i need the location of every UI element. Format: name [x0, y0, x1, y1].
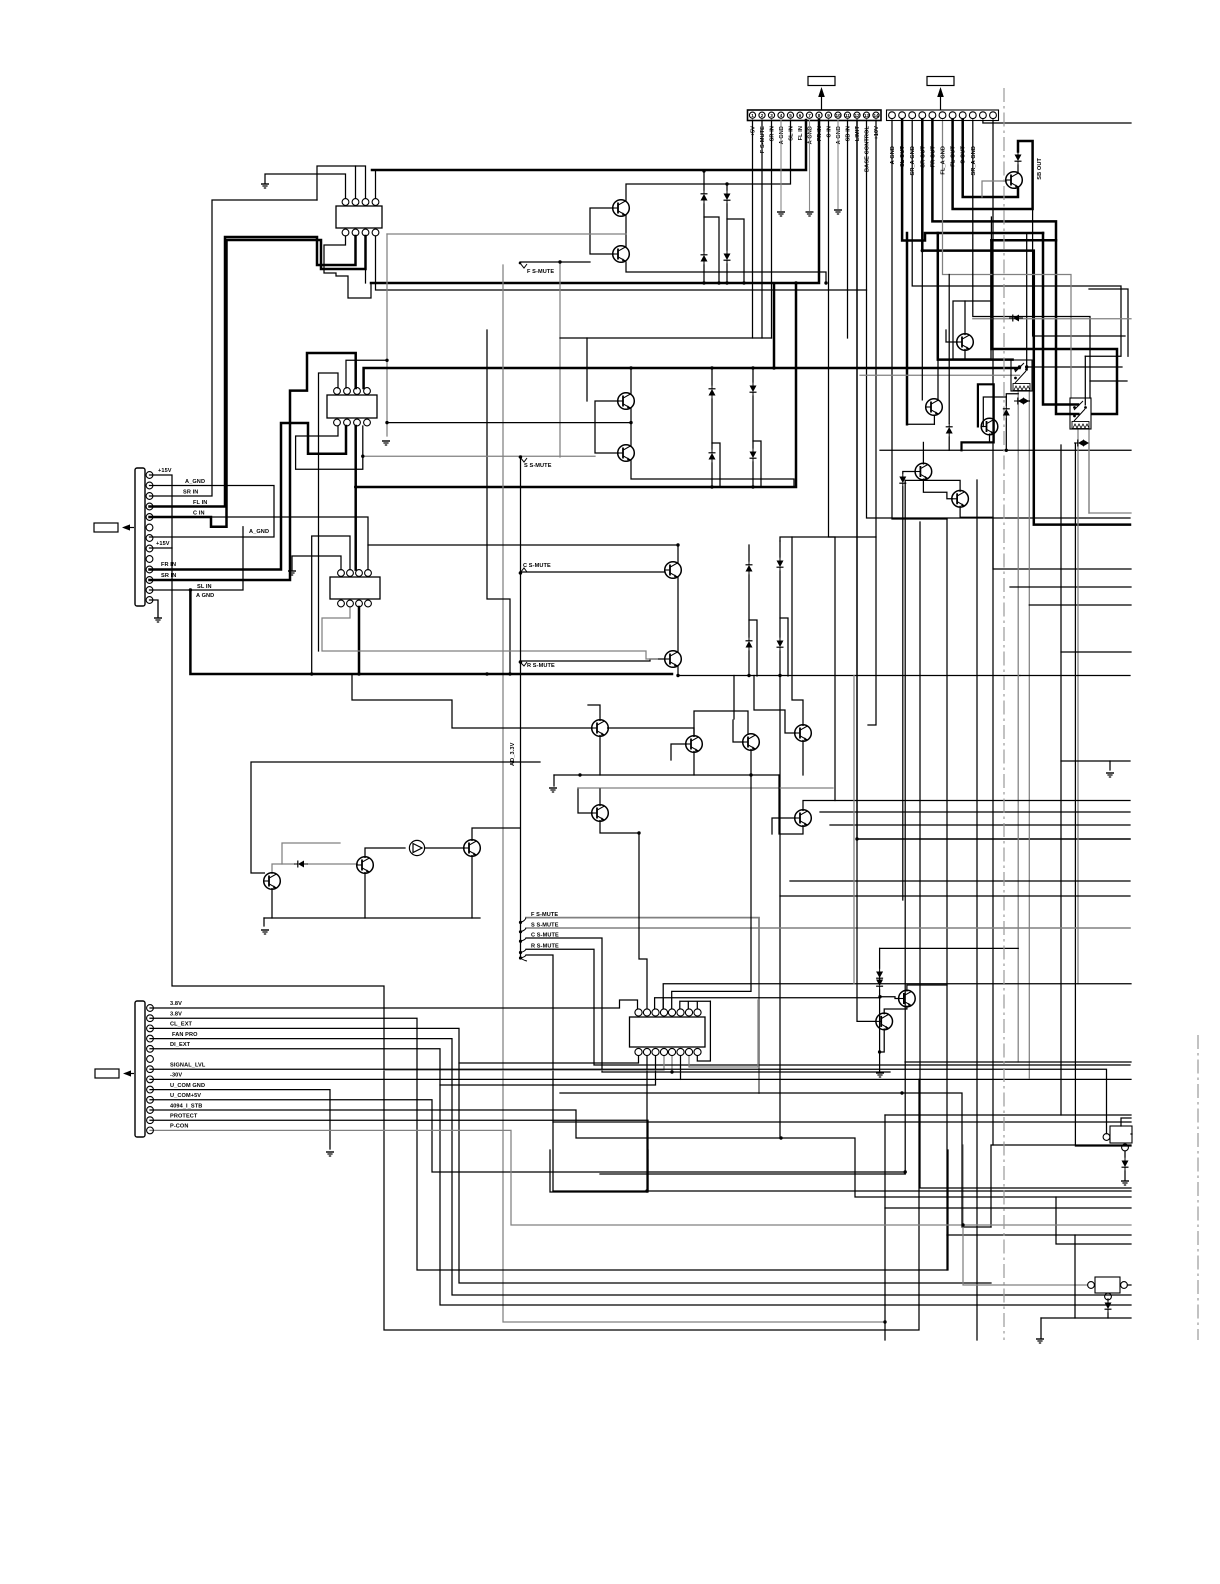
svg-text:FL_A GND: FL_A GND [941, 146, 947, 175]
wire bottom right bus [1041, 1317, 1131, 1319]
wire right bundle y=881 [790, 880, 1130, 882]
svg-text:-30V: -30V [170, 1073, 182, 1079]
wire y450 long [880, 449, 1131, 451]
relay K2 (right lower, with contacts and coil) [1070, 398, 1091, 429]
wire emitter bus mid [554, 774, 779, 776]
wire Q22 emitter to Q23 [884, 1006, 907, 1014]
wire C S-MUTE lower [526, 938, 890, 1072]
svg-text:S S-MUTE: S S-MUTE [531, 923, 559, 929]
svg-text:10: 10 [835, 113, 841, 118]
CN2 pin labels [156, 468, 269, 599]
transistor Q2 [613, 246, 630, 263]
wire gray x854 [853, 676, 855, 984]
diode D13 [1015, 151, 1022, 165]
wire gray from chain mid to left [387, 233, 626, 235]
svg-text:C IN: C IN [193, 511, 205, 517]
wire thick y240 [991, 239, 1056, 242]
wire FL_A GND gray run [943, 120, 1072, 398]
wire Q21 collector up [472, 828, 520, 840]
wire jog D6 group [753, 441, 761, 487]
svg-text:C S-MUTE: C S-MUTE [531, 933, 559, 939]
svg-text:2: 2 [761, 113, 764, 118]
wire Q14 emitter [750, 750, 752, 776]
svg-text:SR IN: SR IN [161, 573, 176, 579]
transistor Q14 [743, 734, 760, 751]
wire jog D10 group [780, 618, 788, 676]
diode D2 [724, 190, 731, 204]
arrow to CN2 box [122, 524, 130, 530]
svg-text:A GND: A GND [836, 126, 842, 144]
ground below CN2 [150, 600, 163, 622]
ground A GND pin10 [834, 120, 842, 214]
wire Q8 box [953, 301, 991, 359]
svg-text:14: 14 [873, 113, 879, 118]
wire extra arrow line [526, 955, 553, 1191]
svg-text:9: 9 [827, 113, 830, 118]
wire RY2 pin1b nest [296, 426, 363, 469]
transistor Q4 [618, 445, 635, 462]
wire bus y338 [560, 337, 772, 339]
wire K1 coil pin1 drop [1017, 390, 1019, 1062]
wire D1 to bus1 [703, 171, 705, 190]
wire long thin to CN2 SR IN [150, 200, 318, 496]
svg-text:SR_A GND: SR_A GND [971, 146, 977, 176]
diode D4 [724, 250, 731, 264]
svg-text:7: 7 [808, 113, 811, 118]
svg-text:LIMIT: LIMIT [855, 126, 861, 142]
wire Q16 base [578, 788, 592, 813]
wire K2 upper contact feed [1043, 233, 1078, 405]
svg-text:FL OUT: FL OUT [951, 146, 957, 167]
wire D13 to Q7 collector [1017, 165, 1019, 173]
wire thick C IN from CN2 up to RY1 bottom [150, 236, 366, 527]
svg-text:F S-MUTE: F S-MUTE [760, 126, 766, 153]
svg-text:SL IN: SL IN [789, 126, 795, 141]
wire D9 chain top [748, 545, 750, 561]
diode D18b [899, 473, 906, 487]
wire D3 to bus2 [703, 265, 705, 283]
svg-text:S S-MUTE: S S-MUTE [524, 463, 552, 469]
CN2 reference box [94, 523, 134, 532]
wire RY2 pin2t to x387 [346, 360, 387, 388]
wire y367 extension right of K1 [1027, 366, 1122, 368]
wire -30V long [150, 1078, 1131, 1080]
wire 3.8V#2 nest [150, 1018, 948, 1270]
ground G5b left of RY3 [288, 571, 296, 575]
wire F S-MUTE to base [520, 261, 590, 263]
wire y1093 long [560, 1093, 991, 1227]
wire D18 bottom [948, 437, 950, 450]
wire Q17 emitter [779, 775, 803, 834]
F S-MUTE arrow (lower cluster) [519, 912, 558, 924]
wire Q6 emitter bus right [1020, 675, 1130, 677]
wire D19 column down to ground [879, 990, 881, 1071]
wire D10-D12 link [779, 571, 781, 637]
IC U1 (16-pin bottom center) [630, 1009, 706, 1056]
transistor Q10 [915, 463, 932, 480]
wire x487 long vertical [487, 330, 510, 674]
wire left cluster box [251, 762, 540, 873]
wire Q3-Q4 chain [630, 408, 632, 446]
R S-MUTE arrow label [519, 661, 555, 669]
wire gray to K1 lower contact [860, 374, 1020, 376]
wire F S-MUTE lower to right [526, 918, 759, 1093]
relay RY1 (8-pin box upper left) [336, 199, 382, 236]
wire thick SR IN from CN2 to RY2 [150, 353, 356, 580]
photocoupler PC2 (right bottom lower) [1088, 1277, 1128, 1300]
wire IC pin4b gray left [384, 1056, 664, 1070]
wire D14 gray line [973, 318, 1131, 320]
board boundary dash-dot line [1003, 88, 1005, 1340]
wire Q9 collector [937, 330, 939, 400]
wire thick branch to K1 left [938, 233, 1013, 360]
transistor Q15 [795, 725, 812, 742]
wire U-shape bottom center [550, 1150, 648, 1192]
wire Q13 emitter [693, 752, 695, 776]
arrow to CN3 box [123, 1070, 131, 1076]
wire IC pin3b left [440, 1056, 656, 1085]
wire y1235 [947, 1234, 1131, 1236]
svg-text:FL IN: FL IN [193, 500, 207, 506]
wire y587 right [1010, 586, 1131, 588]
wire D19 top [879, 948, 881, 968]
svg-text:A GND: A GND [808, 126, 814, 144]
wire Q8 base [946, 330, 957, 342]
wire K2 coil pin1 below diode [1077, 444, 1079, 984]
wire D11 bottom [748, 651, 750, 676]
diode D1 [701, 190, 708, 204]
wire SR IN column [771, 120, 773, 338]
wire Q12 emitter [599, 736, 601, 776]
svg-text:FAN PRO: FAN PRO [172, 1032, 198, 1038]
wire G11 stub [1109, 761, 1111, 770]
wire K2 coil pin2 drop [1088, 429, 1090, 513]
transistor Q1 [613, 200, 630, 217]
CN1 pin labels [751, 126, 1044, 180]
wire y1062 right [905, 1061, 1131, 1063]
wire right mid bundle y=652 [1060, 445, 1062, 1115]
wire K1 coil pin2 drop [1028, 390, 1030, 1078]
relay RY2 (8-pin box mid left) [327, 388, 377, 426]
F S-MUTE arrow label [519, 262, 555, 275]
wire RY1 pin2 loop up-left [317, 166, 356, 200]
wire Q1-Q2 chain [625, 216, 627, 247]
wire S S-MUTE lower gray long [526, 927, 1130, 929]
diode D16 [1003, 405, 1010, 419]
wire SR_A GND column [912, 120, 1121, 356]
wire S S-MUTE line [521, 455, 596, 457]
svg-text:+10V: +10V [874, 126, 880, 140]
wire S-mute tap [363, 455, 521, 457]
wire RY3 pin1b gray staircase [322, 607, 657, 659]
wire A GND out column [892, 120, 947, 519]
wire F S-MUTE column [761, 120, 763, 338]
wire SR OUT thick [922, 120, 1130, 525]
R S-MUTE arrow (lower cluster) [519, 944, 559, 955]
CN3 reference box [95, 1069, 134, 1078]
wire D6-D8 link [752, 396, 754, 448]
wire Q17 collector [803, 801, 1130, 811]
svg-text:4: 4 [780, 113, 783, 118]
ground G1 top left [261, 184, 269, 188]
wire gray drop from F S-MUTE node [559, 262, 561, 457]
diode D8 [750, 448, 757, 462]
buffer stage Q20 [409, 840, 424, 855]
svg-text:FL IN: FL IN [798, 126, 804, 140]
wire U_COM GND to ground [150, 1090, 330, 1149]
transistor Q18 [264, 873, 281, 890]
transistor Q23 [876, 1013, 893, 1030]
wire PC1 box top right [1121, 1118, 1131, 1126]
wire IC pin5t right [672, 775, 751, 1009]
wire D20 to Q19 [308, 863, 357, 865]
wire Q22 collector [907, 985, 947, 991]
wire IC pin7b gray right [689, 1000, 758, 1067]
wire Q16 collector [599, 789, 601, 806]
transistor Q21 [464, 840, 481, 857]
wire Q19 emitter [364, 873, 366, 918]
svg-text:8: 8 [818, 113, 821, 118]
svg-text:C IN: C IN [827, 126, 833, 138]
wire gray x963 [962, 1145, 964, 1225]
wire Q5-Q6 chain [677, 577, 679, 652]
wire y289 hook [1089, 289, 1128, 356]
wire D17 right lead gray down [1088, 443, 1090, 513]
wire gray left vertical [386, 234, 388, 436]
wire D5-D7 link [711, 399, 713, 449]
ground A GND pin4 [777, 120, 785, 216]
wire pin10 top line [983, 120, 1131, 123]
wire bracket to Q22 base [663, 997, 899, 999]
svg-text:+15V: +15V [158, 468, 172, 474]
svg-text:5: 5 [789, 113, 792, 118]
board boundary dash-dot right [1197, 1035, 1199, 1340]
wire +10V column to D10 top [780, 120, 876, 541]
wire x905 long [904, 480, 906, 1174]
connector CN2 (left input) [135, 468, 153, 606]
transistor Q13 [686, 736, 703, 753]
wire thick bus3 right to K1 contact [774, 367, 1020, 370]
wire Q17 base [772, 818, 795, 834]
wire x991 to 1145 line [991, 1145, 1131, 1227]
wire Q3 collector to bus3 [630, 368, 632, 394]
wire D15 bridge [1018, 400, 1029, 402]
wire Q11 collector to x905 [905, 480, 960, 491]
wire IC pin4t long right [663, 984, 1131, 1009]
wire +5V column [752, 120, 754, 338]
diode D7 [709, 449, 716, 463]
wire K2 upper contact right [1084, 356, 1086, 405]
svg-text:A_GND: A_GND [249, 529, 269, 535]
diode D10 [777, 557, 784, 571]
wire Q15 base drop [753, 676, 755, 711]
wire SL OUT deep branch [906, 233, 909, 424]
svg-text:SR IN: SR IN [770, 126, 776, 141]
wire y605 right [1029, 604, 1131, 606]
wire Q21 emitter [471, 856, 473, 918]
wire R S-MUTE to Q6 base [520, 659, 665, 661]
connector CN1 strip B (output pins) [887, 110, 999, 121]
diode D3 [701, 251, 708, 265]
wire Q12 to Q13 link [608, 728, 694, 736]
transistor Q22 [899, 990, 916, 1007]
wire y1174 [600, 1173, 905, 1175]
wire IC right loop [697, 1001, 710, 1061]
wire C S-MUTE to Q5 base [520, 571, 665, 573]
wire D7 to bus4 [711, 463, 713, 487]
ground G11 right [1106, 773, 1114, 777]
wire Q9b thick loop [962, 384, 994, 450]
diode D11 [746, 637, 753, 651]
transistor Q8 [957, 334, 974, 351]
svg-text:SL OUT: SL OUT [900, 146, 906, 167]
wire SL IN from CN2 [150, 527, 244, 590]
wire D18b below [902, 487, 904, 900]
transistor Q9b [981, 418, 998, 435]
svg-text:C OUT: C OUT [961, 146, 967, 164]
wire G7 stub [553, 775, 555, 786]
wire Q7 base gray [982, 181, 1007, 197]
svg-text:FR IN: FR IN [161, 562, 176, 568]
svg-text:DI_EXT: DI_EXT [170, 1042, 191, 1048]
wire y1122 long [553, 1121, 1131, 1123]
wire LIMIT column [857, 120, 1130, 839]
wire y381 hook [1090, 380, 1127, 382]
wire jog D2 group [727, 219, 744, 283]
svg-text:+15V: +15V [156, 541, 170, 547]
svg-text:PROTECT: PROTECT [170, 1114, 198, 1120]
S S-MUTE arrow label [519, 456, 552, 469]
svg-text:SB IN: SB IN [846, 126, 852, 141]
wire RY1 pin4 stub [375, 170, 377, 198]
wire G8 stub [263, 918, 265, 926]
svg-text:11: 11 [845, 113, 850, 118]
wire jog D9 group [749, 620, 757, 676]
wire CL_EXT nest [150, 1028, 991, 1283]
wire ground G1 to RY1 pin1 [265, 174, 346, 198]
wire y948 right [880, 947, 1019, 949]
svg-text:AD_3.3V: AD_3.3V [510, 742, 516, 766]
wire Q13 collector [694, 711, 748, 736]
wire G13 stub [1040, 1318, 1042, 1338]
svg-text:F S-MUTE: F S-MUTE [527, 269, 554, 275]
svg-text:CL_EXT: CL_EXT [170, 1022, 193, 1028]
wire Q14 base drop [733, 676, 735, 720]
wire y422.6 long [387, 422, 631, 424]
transistor Q11 [952, 491, 969, 508]
wire SB OUT column [993, 120, 1131, 569]
wire K2 coil pin1 drop [1077, 429, 1079, 442]
svg-text:SR OUT: SR OUT [920, 146, 926, 168]
wire right bundle y=812 [820, 811, 1130, 813]
C S-MUTE arrow label [519, 563, 551, 574]
wire Q10 emitter to Q11 base [923, 479, 952, 499]
wire D17 left lead long down [1075, 443, 1131, 1146]
wire 4094_I_STB long [150, 1110, 1131, 1197]
wire thick FR IN from CN2 to RY2 [150, 423, 347, 570]
wire A GND long run from CN2 [172, 548, 919, 1330]
wire SIGNAL_LVL to PC1 [150, 1069, 1107, 1133]
svg-text:SL IN: SL IN [197, 584, 212, 590]
transistor Q6 [665, 651, 682, 668]
svg-text:SR IN: SR IN [183, 490, 198, 496]
transistor Q7 [1006, 172, 1023, 189]
wire right bundle y=896 [780, 895, 1130, 897]
wire riser x991 [990, 217, 992, 240]
wire D4 to bus2 [726, 264, 728, 283]
wire Q3 Q4 base link [595, 401, 619, 453]
wire gray upper branch [282, 843, 340, 864]
wire Q20 to Q21 [425, 847, 465, 849]
wire IC pin2b down [646, 1056, 648, 1191]
ground G9 below CN3 [326, 1152, 334, 1156]
wire K1 coil to D16 [1006, 394, 1018, 405]
diode D17 pair [1074, 440, 1089, 447]
ground A GND pin7 [806, 120, 814, 216]
wire Q15 base link [755, 710, 795, 733]
transistor Q9 [926, 399, 943, 416]
wire thick left L to RY3 [190, 590, 672, 674]
wire RY3 pin2b thick down [358, 607, 361, 674]
svg-text:U_COM+5V: U_COM+5V [170, 1093, 201, 1099]
wire K1 upper contact riser [1026, 233, 1028, 367]
wire jog D5 group [712, 443, 720, 487]
wire y513 gray right [1089, 512, 1131, 514]
wire FAN PRO nest [150, 1039, 1131, 1295]
wire D18 column top [948, 275, 950, 424]
wire x977 vertical [976, 480, 978, 1340]
diode D18 [946, 423, 953, 437]
wire gray y788 [578, 787, 833, 789]
wire D22 down to bus [1107, 1313, 1109, 1318]
wire drop to Q3 base rail [586, 338, 588, 401]
wire Q19 collector [365, 848, 405, 857]
wire RY3 pin2t to CN2 pin6 [312, 536, 350, 674]
svg-text:3: 3 [770, 113, 773, 118]
svg-text:C S-MUTE: C S-MUTE [523, 563, 551, 569]
header box CN1a reference [808, 77, 835, 111]
wire Q8 emitter [964, 350, 966, 360]
svg-text:BASE CONTROL: BASE CONTROL [865, 126, 871, 172]
ground G5 below RY2 [382, 441, 390, 445]
wire Q9b base [982, 397, 1006, 427]
svg-text:12: 12 [854, 113, 860, 118]
wire Q12 collector [588, 705, 600, 720]
wire U_COM+5V nest [150, 1100, 905, 1172]
wire RY1 pin3b down to bus2 [365, 236, 367, 283]
svg-text:FR OUT: FR OUT [930, 146, 936, 168]
wire Q10 collector [922, 442, 924, 464]
wire IC pin3t jog [655, 998, 664, 1009]
wire AD_3.3V long gray vertical [503, 265, 885, 1322]
wire Q6 emitter down [678, 666, 1020, 676]
wire right bundle y=825 [830, 824, 1130, 826]
wire staircase to Q12 base [352, 674, 592, 728]
connector CN3 (lower left) [135, 1001, 153, 1137]
wire y1191 long [553, 1190, 1131, 1192]
svg-text:A GND: A GND [890, 146, 896, 164]
diode D14 [1009, 315, 1023, 322]
wire FL OUT thick around Q7 [953, 120, 1033, 209]
ground G12 below PC1 [1121, 1181, 1129, 1185]
wire +15V loop CN2 [150, 475, 173, 548]
wire PC2 left gray [963, 1225, 1088, 1285]
svg-text:U_COM GND: U_COM GND [170, 1083, 205, 1089]
wire PC1 diode down [1124, 1151, 1126, 1157]
wire A_GND loop CN2 [150, 486, 275, 538]
wire D21 to ground [1124, 1171, 1126, 1180]
wire thick bus3 [364, 284, 774, 388]
